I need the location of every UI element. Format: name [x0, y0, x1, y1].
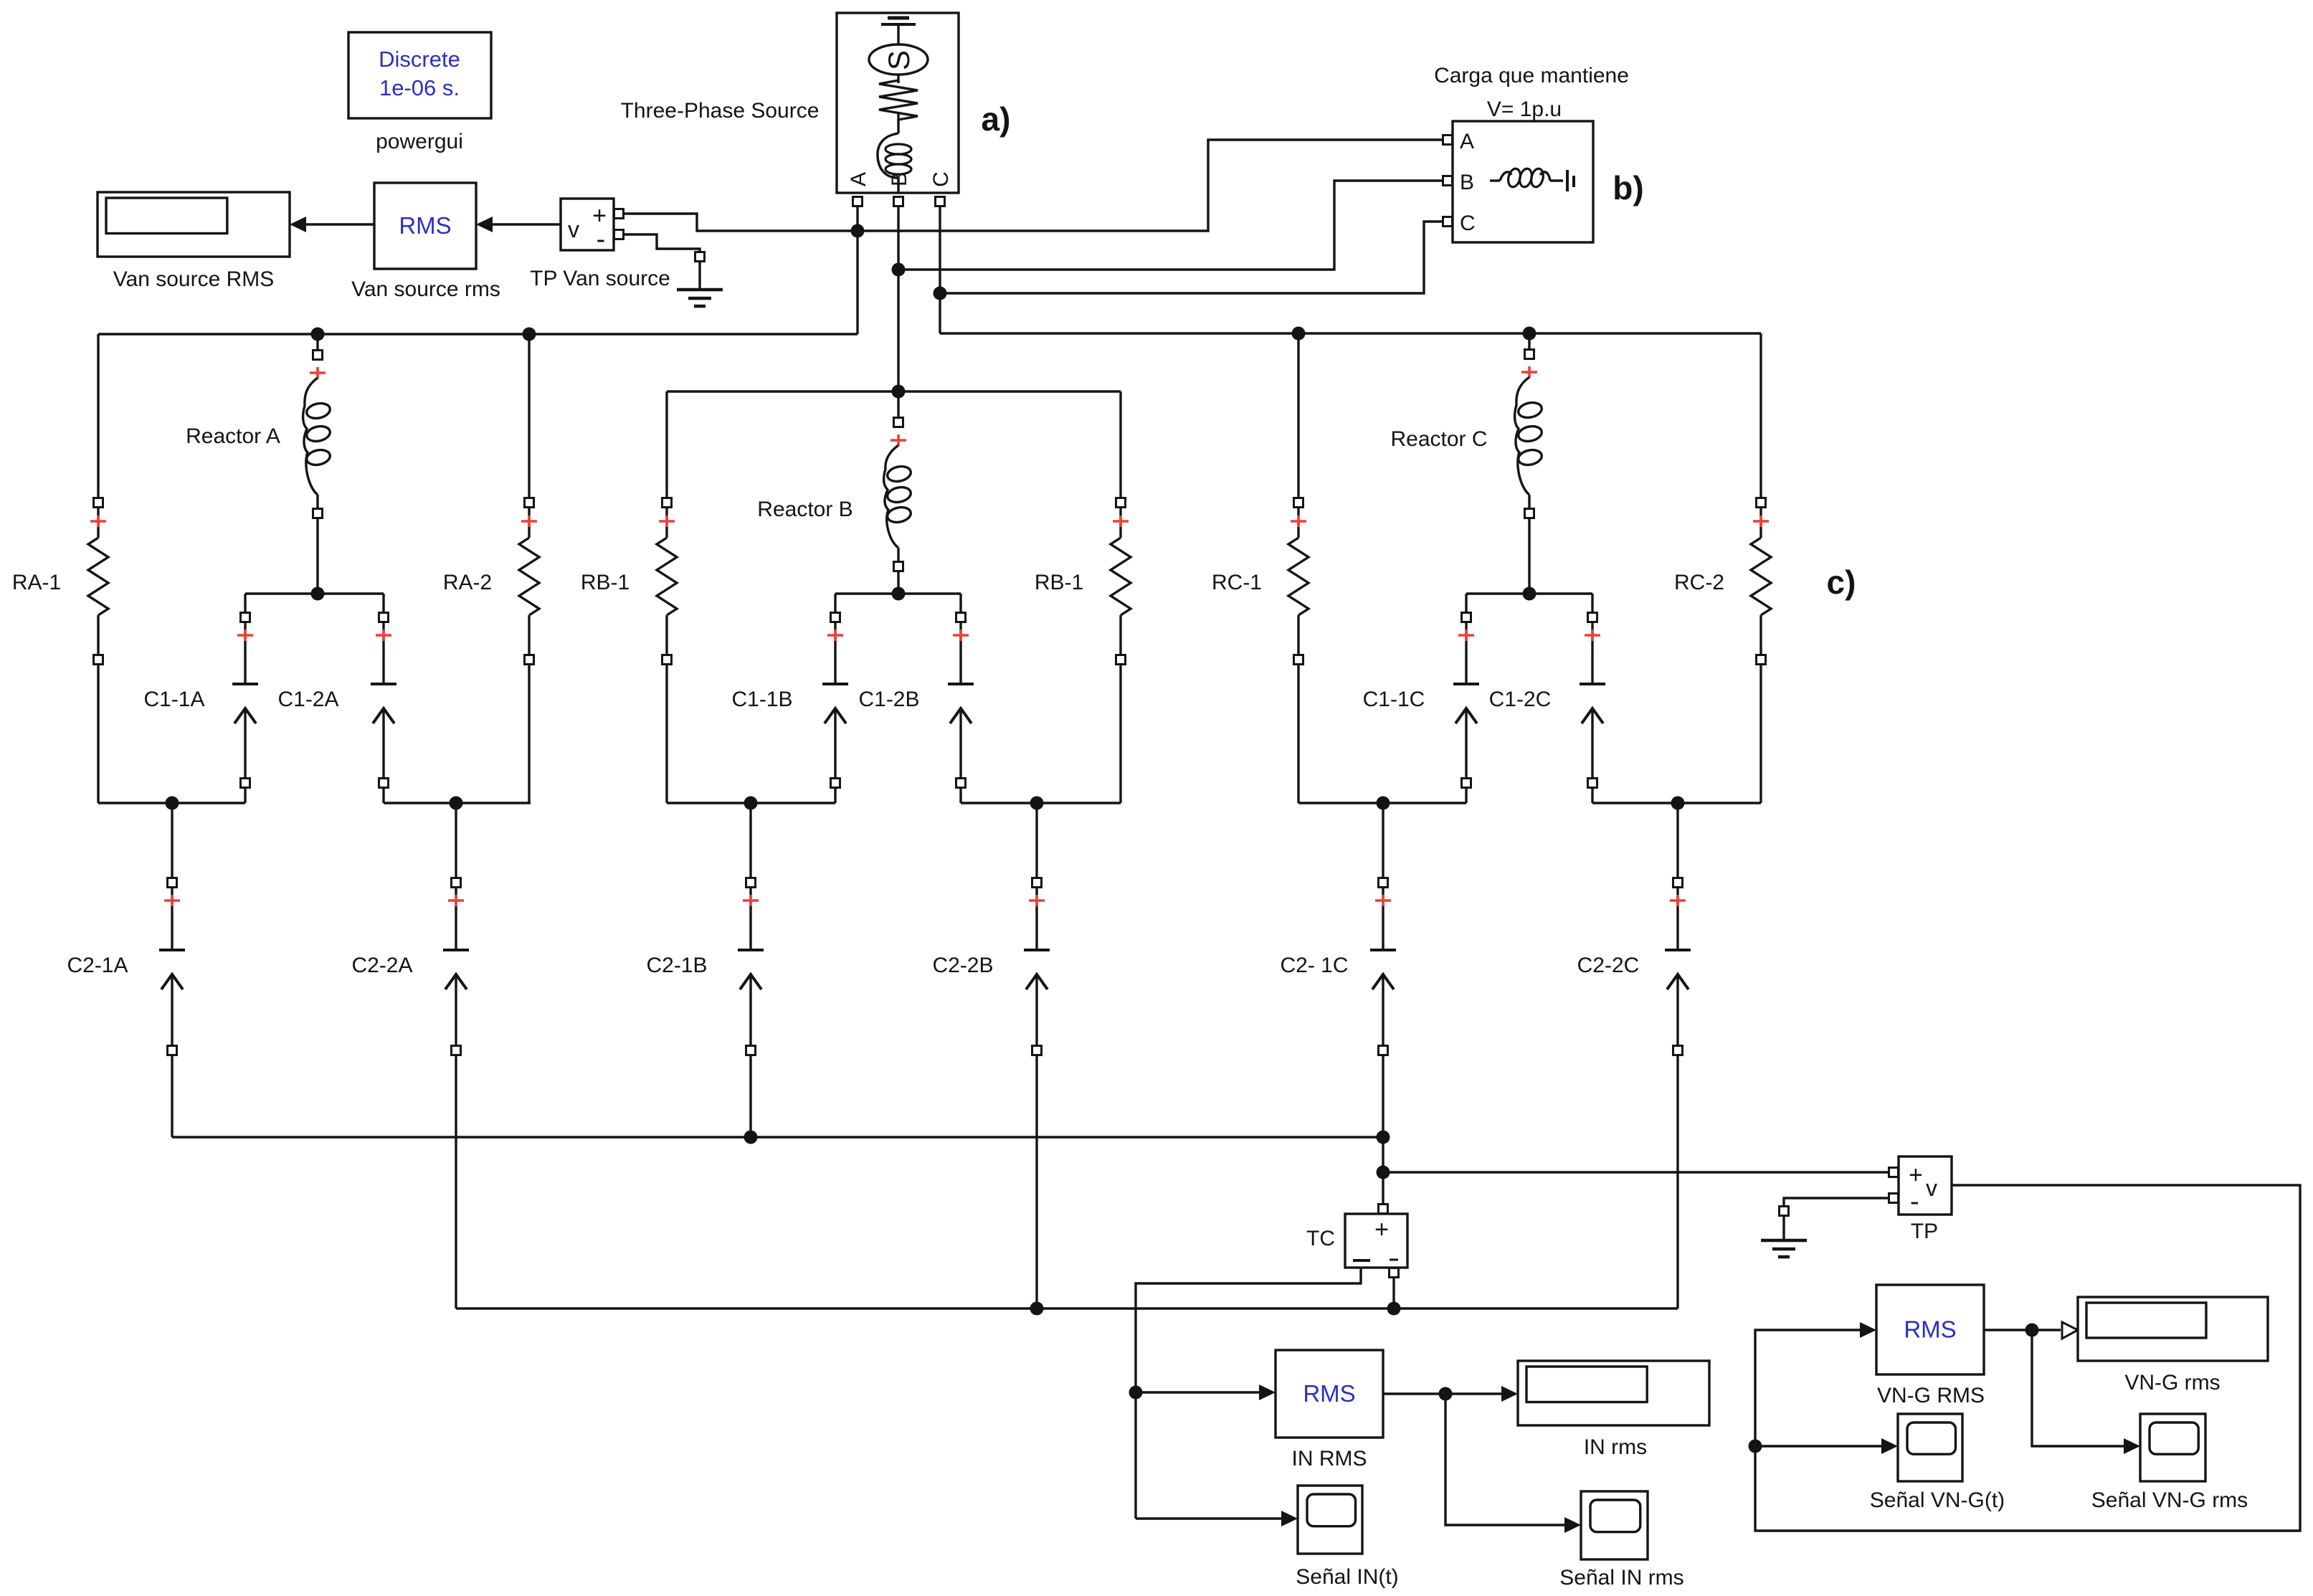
junction neutral at C2-1C [1377, 1131, 1390, 1144]
scope Senal VN-G rms [2140, 1414, 2205, 1481]
RMS block IN RMS [1276, 1350, 1383, 1438]
wire bottom bus C-left [1298, 802, 1466, 804]
svg-text:-: - [597, 224, 606, 255]
junction phase B tap [892, 263, 906, 277]
svg-text:v: v [1926, 1175, 1937, 1201]
source internal resistor [897, 75, 899, 83]
reactor A [316, 338, 318, 350]
display Van source RMS [98, 192, 290, 257]
wire phase A bus [98, 333, 858, 335]
port TP - [1889, 1194, 1899, 1203]
reactor C [1528, 338, 1530, 349]
wire neutral down to TC [1382, 1137, 1384, 1204]
wire bottom bus A-right [384, 802, 531, 804]
svg-text:Reactor C: Reactor C [1390, 427, 1487, 451]
junction TC neutral [1387, 1302, 1401, 1316]
junction phase C tap [934, 287, 947, 300]
wire neutral net C2-2 [456, 1307, 1678, 1309]
voltage measurement TP Van source [561, 199, 614, 250]
svg-text:RMS: RMS [1904, 1316, 1956, 1343]
port TP + [1889, 1168, 1899, 1177]
svg-text:A: A [1460, 130, 1474, 153]
svg-text:C2-2B: C2-2B [932, 954, 993, 977]
wire mid bus A [245, 592, 384, 594]
svg-text:RC-2: RC-2 [1674, 571, 1724, 594]
source AC symbol [869, 44, 928, 75]
wire IN RMS out [1383, 1392, 1504, 1395]
resistor RB-1 right [1119, 391, 1121, 498]
svg-text:C: C [1460, 212, 1476, 235]
wire TC - to neutral [1392, 1278, 1395, 1308]
three-phase source block U1 [837, 13, 959, 193]
wire bottom bus B-right [961, 802, 1121, 804]
load block Carga que mantiene [1453, 121, 1593, 242]
svg-text:c): c) [1827, 564, 1856, 601]
junction C2-2A top [450, 797, 463, 810]
svg-text:+: + [1374, 1216, 1389, 1243]
arrow into Senal IN(t) [1281, 1511, 1298, 1526]
capacitor C2- 1C [1382, 803, 1384, 878]
wire neutral net C2-1 [172, 1136, 1383, 1138]
svg-text:RMS: RMS [399, 212, 451, 239]
svg-text:RA-2: RA-2 [443, 571, 492, 594]
display IN rms [1518, 1361, 1709, 1425]
wire mid bus C [1466, 592, 1592, 594]
load port A [1443, 136, 1453, 145]
wire to Senal IN rms [1445, 1394, 1567, 1525]
capacitor C2-2B [1035, 803, 1037, 878]
svg-text:1e-06 s.: 1e-06 s. [379, 75, 460, 100]
svg-text:Señal VN-G(t): Señal VN-G(t) [1870, 1488, 2005, 1512]
resistor RA-2 [528, 334, 530, 498]
wire phase B to load [898, 181, 1443, 270]
resistor RB-1 left [665, 391, 668, 498]
svg-text:C1-2C: C1-2C [1489, 688, 1552, 711]
svg-text:C1-2B: C1-2B [858, 688, 919, 711]
svg-text:C1-1C: C1-1C [1363, 688, 1425, 711]
open arrow into VN-G rms [2062, 1322, 2078, 1339]
capacitor C1-1A [244, 594, 246, 612]
arrow into Senal VN-G rms [2124, 1438, 2140, 1454]
resistor RC-1 [1297, 333, 1299, 498]
wire mid bus B [835, 592, 961, 594]
junction IN signal [1129, 1386, 1143, 1400]
svg-text:Señal IN(t): Señal IN(t) [1296, 1565, 1398, 1589]
svg-text:+: + [1909, 1162, 1923, 1189]
junction RC-1 top [1292, 327, 1306, 341]
junction reactor A bottom [311, 587, 325, 601]
port TC - [1390, 1268, 1399, 1278]
junction C2-2B top [1030, 797, 1044, 810]
svg-text:C2-2A: C2-2A [351, 954, 412, 977]
arrow into Van source RMS [290, 217, 306, 232]
wire TP Van source + to phase A node [623, 140, 1443, 231]
scope Senal VN-G(t) [1898, 1414, 1962, 1481]
wire TP output loop [1755, 1185, 2300, 1531]
source internal ground [888, 16, 909, 20]
svg-text:A: A [847, 172, 870, 186]
wire to Senal VN-G rms [2032, 1330, 2127, 1446]
junction VN-G signal [1749, 1440, 1762, 1453]
junction reactor B top [892, 385, 906, 399]
junction C2-2B bottom [1030, 1302, 1044, 1316]
ground below TP [1780, 1207, 1789, 1216]
svg-text:RB-1: RB-1 [1035, 571, 1083, 594]
svg-text:Señal IN rms: Señal IN rms [1559, 1566, 1683, 1590]
svg-text:S: S [882, 50, 916, 70]
junction reactor B bottom [892, 587, 906, 601]
wire IN to RMS [1136, 1391, 1262, 1393]
wire VN-G to scope [1755, 1445, 1884, 1447]
wire TP Van source to RMS [490, 223, 561, 225]
junction reactor A top [311, 328, 325, 341]
reactor B [897, 396, 899, 417]
RMS block VN-G RMS [1876, 1285, 1984, 1374]
display VN-G rms [2078, 1297, 2268, 1361]
source internal inductor [878, 133, 898, 178]
svg-text:a): a) [982, 100, 1011, 138]
svg-text:IN rms: IN rms [1584, 1435, 1647, 1459]
arrow into Van source rms [476, 217, 493, 232]
svg-text:-: - [1910, 1187, 1919, 1217]
svg-text:VN-G RMS: VN-G RMS [1877, 1384, 1985, 1407]
resistor RC-2 [1759, 333, 1762, 498]
svg-text:Carga que mantiene: Carga que mantiene [1434, 64, 1629, 87]
svg-text:TP: TP [1911, 1220, 1938, 1243]
svg-text:V= 1p.u: V= 1p.u [1487, 98, 1562, 121]
port + of TP Van source [614, 209, 624, 219]
junction C2-2C top [1671, 797, 1685, 810]
source port C [936, 197, 945, 206]
capacitor C2-1A [171, 803, 173, 878]
load port B [1443, 176, 1453, 186]
svg-text:C1-1A: C1-1A [143, 688, 204, 711]
port - of TP Van source [614, 230, 624, 239]
arrow into IN rms [1501, 1386, 1518, 1402]
arrow into Senal VN-G(t) [1881, 1438, 1898, 1454]
scope Senal IN(t) [1298, 1486, 1362, 1554]
svg-text:RB-1: RB-1 [581, 571, 630, 594]
svg-text:RA-1: RA-1 [12, 571, 61, 594]
svg-text:v: v [568, 217, 579, 242]
wire bottom bus C-right [1592, 802, 1761, 804]
wire bottom bus A-left [98, 802, 245, 804]
capacitor C2-2A [455, 803, 457, 878]
junction C2-1C top [1377, 797, 1390, 810]
svg-text:powergui: powergui [376, 130, 463, 153]
svg-text:Van source rms: Van source rms [351, 277, 500, 301]
svg-text:Discrete: Discrete [379, 47, 460, 72]
arrow into VN-G RMS [1860, 1322, 1876, 1338]
load internal capacitor [1566, 170, 1569, 191]
wire RMS to Van source RMS [304, 223, 374, 225]
RMS block Van source rms [374, 183, 476, 269]
svg-text:IN RMS: IN RMS [1292, 1447, 1367, 1471]
wire TP Van source - to ground [623, 234, 700, 252]
wire phase C to load [940, 222, 1443, 293]
wire phase B bus [667, 390, 1121, 392]
capacitor C2-1B [749, 803, 751, 878]
wire TP - to ground [1784, 1198, 1889, 1206]
svg-text:C1-1B: C1-1B [731, 688, 792, 711]
load internal inductor [1490, 179, 1500, 181]
arrow into Senal IN rms [1564, 1517, 1581, 1533]
arrow into IN RMS [1259, 1384, 1276, 1400]
junction reactor C top [1523, 327, 1537, 341]
voltage measurement TP [1899, 1156, 1952, 1215]
svg-text:Reactor A: Reactor A [186, 424, 280, 448]
wire TC current out [1136, 1268, 1361, 1519]
resistor RA-1 [97, 334, 99, 498]
wire neutral to TP + [1383, 1171, 1889, 1173]
svg-text:TP Van source: TP Van source [530, 267, 670, 290]
source port B [894, 197, 903, 206]
svg-text:C2- 1C: C2- 1C [1280, 954, 1348, 977]
capacitor C2-2C [1676, 803, 1678, 878]
svg-text:Van source RMS: Van source RMS [113, 267, 275, 291]
wire bottom bus B-left [667, 802, 835, 804]
junction C2-1A top [166, 797, 179, 810]
load port C [1443, 217, 1453, 227]
svg-text:RMS: RMS [1303, 1380, 1355, 1407]
junction phase A tap [851, 224, 865, 238]
wire phase C bus [940, 332, 1761, 334]
wire source A to bus [856, 206, 858, 334]
junction C2-1B bottom [744, 1131, 758, 1144]
svg-text:VN-G rms: VN-G rms [2124, 1371, 2220, 1395]
junction IN rms out [1439, 1387, 1453, 1401]
ground below TP Van source [695, 252, 705, 262]
capacitor C1-1B [834, 594, 836, 612]
svg-text:C2-1B: C2-1B [646, 954, 707, 977]
svg-text:B: B [888, 172, 911, 186]
svg-text:b): b) [1613, 169, 1643, 206]
svg-text:B: B [1460, 171, 1474, 194]
wire VN-G RMS out [1984, 1329, 2061, 1331]
powergui block [348, 32, 491, 118]
svg-text:TC: TC [1306, 1227, 1335, 1250]
svg-text:C2-1A: C2-1A [67, 954, 128, 977]
capacitor C1-2A [382, 594, 384, 612]
junction reactor C bottom [1523, 587, 1537, 601]
junction VN-G rms out [2025, 1324, 2039, 1337]
capacitor C1-1C [1465, 594, 1467, 612]
capacitor C1-2C [1591, 594, 1593, 612]
svg-text:C1-2A: C1-2A [277, 688, 338, 711]
svg-text:Three-Phase Source: Three-Phase Source [621, 99, 820, 123]
svg-text:Reactor B: Reactor B [757, 498, 852, 521]
scope Senal IN rms [1581, 1491, 1648, 1559]
wire source B down [897, 206, 899, 391]
junction C2-1B top [744, 797, 758, 810]
capacitor C1-2B [959, 594, 961, 612]
source port A [853, 197, 863, 206]
current measurement TC [1379, 1205, 1388, 1214]
junction neutral to TP [1377, 1166, 1390, 1179]
svg-text:RC-1: RC-1 [1212, 571, 1262, 594]
svg-text:C2-2C: C2-2C [1577, 954, 1640, 977]
wire source C down [939, 206, 941, 333]
svg-text:C: C [929, 171, 953, 187]
svg-text:Señal VN-G rms: Señal VN-G rms [2091, 1488, 2248, 1512]
junction RA-2 top [523, 328, 536, 341]
wire IN to scope [1136, 1517, 1283, 1519]
